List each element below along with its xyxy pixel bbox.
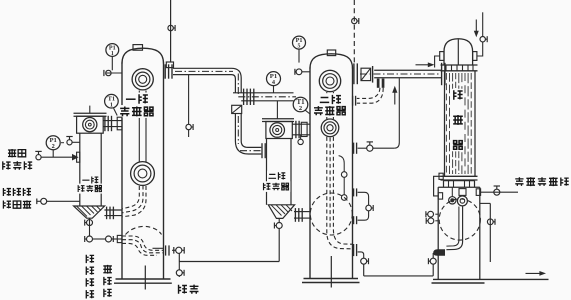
svg-text:5: 5 — [298, 44, 301, 50]
svg-text:1: 1 — [111, 51, 114, 57]
svg-text:2: 2 — [299, 105, 302, 112]
svg-text:1: 1 — [110, 103, 113, 109]
svg-text:2: 2 — [52, 143, 55, 150]
